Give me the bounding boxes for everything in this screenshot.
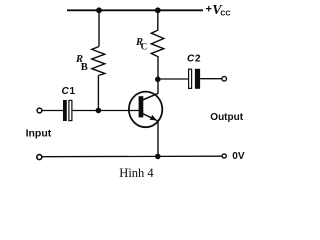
svg-text:C: C: [62, 86, 70, 97]
node: base junction: [96, 108, 102, 114]
wire: collector lead: [157, 56, 159, 94]
svg-text:C: C: [141, 42, 148, 52]
terminal: bottom-left: [37, 155, 42, 160]
wire: 0V bottom rail: [42, 155, 222, 158]
wire: collector junction to C2: [158, 78, 189, 80]
node: rail junction at RC: [155, 7, 161, 13]
capacitor C1: [63, 100, 72, 121]
node: emitter-rail junction: [155, 154, 161, 160]
transistor Q1: [129, 92, 162, 128]
wire: RB top lead: [98, 10, 100, 47]
node: collector junction: [155, 77, 161, 83]
svg-text:Output: Output: [210, 112, 243, 123]
terminal: output: [222, 76, 227, 81]
terminal: input: [37, 108, 42, 113]
label +Vcc: [206, 3, 231, 18]
resistor RC: [151, 30, 164, 56]
svg-text:Input: Input: [26, 128, 52, 140]
node: rail junction at RB: [96, 7, 102, 13]
label C1: [62, 86, 76, 97]
wire: C2 to output terminal: [200, 78, 222, 80]
resistor RB: [92, 47, 105, 76]
svg-text:+: +: [206, 3, 212, 15]
svg-text:CC: CC: [220, 11, 230, 18]
wire: +Vcc top rail: [67, 9, 203, 11]
wire: RB bottom lead: [97, 76, 99, 111]
wire: C1 to base: [73, 110, 139, 112]
terminal: 0V right: [222, 154, 226, 158]
svg-text:C: C: [187, 54, 195, 65]
label RB: [75, 54, 88, 73]
label RC: [135, 37, 147, 52]
svg-text:B: B: [81, 62, 88, 73]
wire: emitter lead: [157, 121, 159, 157]
svg-text:2: 2: [195, 54, 201, 65]
wire: input to C1: [42, 110, 63, 112]
svg-text:0V: 0V: [232, 151, 245, 162]
wire: RC top lead: [157, 10, 159, 31]
svg-text:Hình 4: Hình 4: [119, 166, 154, 180]
svg-text:1: 1: [70, 86, 76, 97]
label C2: [187, 54, 201, 65]
capacitor C2: [189, 69, 200, 89]
